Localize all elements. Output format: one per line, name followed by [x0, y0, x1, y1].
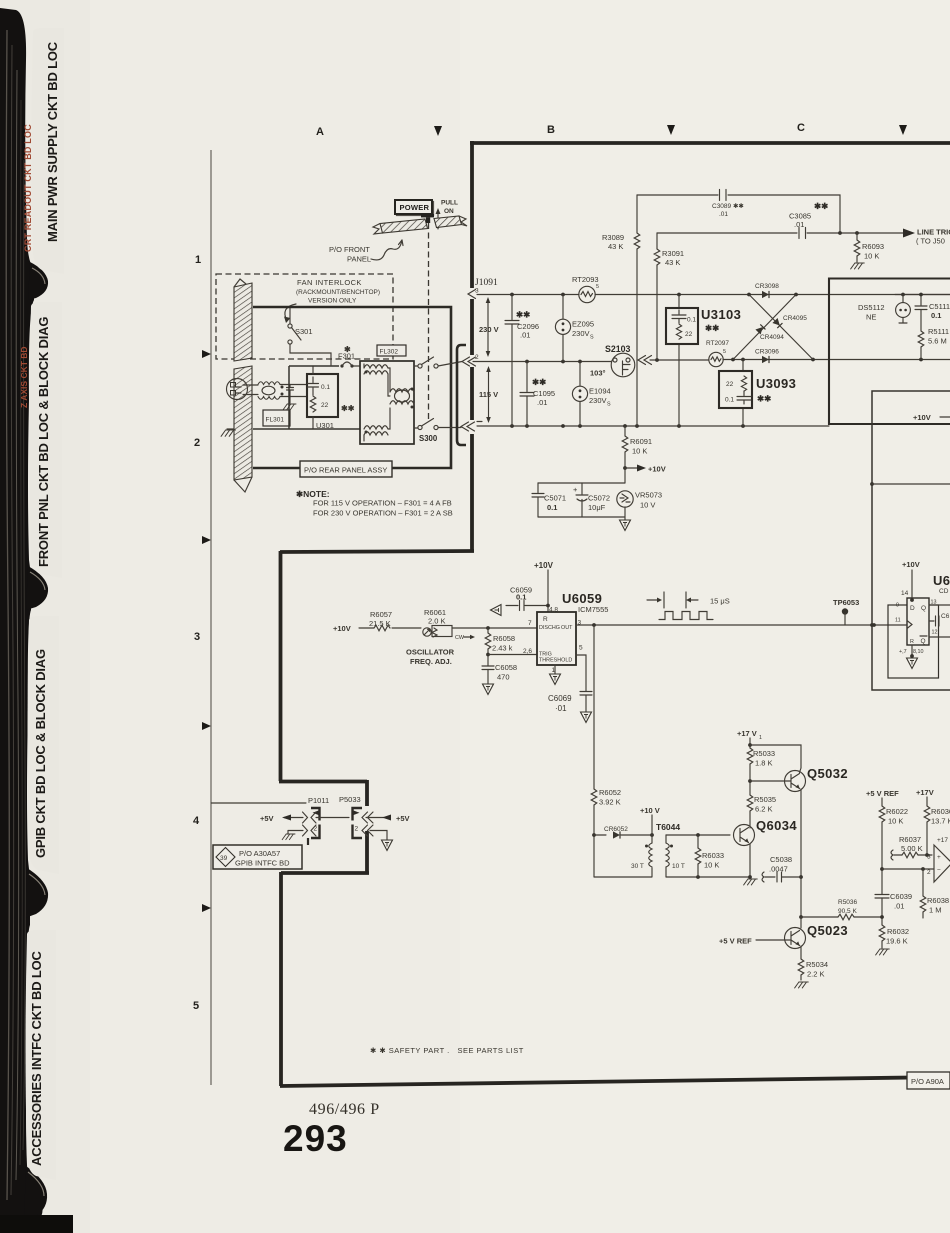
svg-text:+10V: +10V: [648, 465, 666, 474]
svg-text:14: 14: [901, 590, 909, 597]
diode CR3098: [762, 291, 769, 298]
diodes CR4094 / CR4095 cross: [733, 295, 796, 360]
svg-text:2: 2: [475, 354, 479, 361]
svg-text:2.43 k: 2.43 k: [492, 644, 513, 653]
svg-text:1 M: 1 M: [929, 906, 942, 915]
svg-text:R6037: R6037: [899, 835, 921, 844]
svg-text:5: 5: [193, 1000, 199, 1012]
resistor R6038: [882, 868, 934, 870]
svg-text:R5036: R5036: [838, 899, 858, 906]
svg-text:496/496 P: 496/496 P: [309, 1101, 380, 1118]
svg-text:230V: 230V: [589, 396, 607, 405]
svg-text:S2103: S2103: [605, 344, 631, 354]
svg-text:Q6034: Q6034: [756, 818, 797, 833]
P/O A90A label box: [907, 1072, 950, 1089]
resistor R6093: [856, 233, 858, 262]
svg-text:U60: U60: [933, 573, 950, 588]
wire: margin to P1011: [211, 802, 306, 804]
surge arrestor E1094: [579, 362, 581, 427]
svg-text:FREQ. ADJ.: FREQ. ADJ.: [410, 657, 452, 666]
svg-text:·01: ·01: [555, 704, 567, 713]
svg-text:P/O A30A57: P/O A30A57: [239, 849, 280, 858]
svg-text:R5033: R5033: [753, 749, 775, 758]
resistor R3091: [656, 233, 658, 360]
J1091 pin 2: [462, 357, 470, 366]
svg-text:.01: .01: [894, 902, 904, 911]
svg-text:+10 V: +10 V: [640, 806, 660, 815]
capacitor C1095: [520, 362, 534, 427]
svg-text:+17V: +17V: [916, 788, 934, 797]
capacitor C3085: [657, 232, 903, 234]
transistor Q5032: [785, 771, 806, 792]
svg-text:2: 2: [355, 826, 359, 833]
svg-text:R6038: R6038: [927, 896, 949, 905]
svg-text:✱✱: ✱✱: [757, 394, 772, 404]
svg-text:0.1: 0.1: [321, 384, 330, 391]
svg-text:CR3098: CR3098: [755, 283, 779, 290]
thermistor RT2097: [709, 352, 723, 366]
svg-text:3.92 K: 3.92 K: [599, 798, 621, 807]
svg-text:−: −: [937, 867, 941, 874]
svg-text:C1095: C1095: [533, 389, 555, 398]
svg-text:+,7: +,7: [899, 649, 907, 655]
svg-text:3: 3: [194, 631, 200, 643]
svg-text:+5 V REF: +5 V REF: [866, 789, 899, 798]
FL301 label box: [263, 410, 290, 426]
svg-text:90.5 K: 90.5 K: [838, 908, 857, 915]
svg-text:CW: CW: [455, 635, 465, 641]
svg-text:+: +: [573, 485, 578, 494]
transformer FL302: [360, 361, 414, 444]
svg-text:Q5023: Q5023: [807, 923, 848, 938]
svg-text:FL301: FL301: [266, 417, 285, 424]
svg-text:RT2093: RT2093: [572, 275, 599, 284]
connector P1011 / P5033 brackets: [311, 808, 320, 838]
potentiometer R6061: [423, 628, 431, 636]
diode CR3096: [762, 356, 769, 363]
svg-text:+10V: +10V: [902, 560, 920, 569]
wire: S2103 output: [650, 359, 950, 362]
svg-text:12: 12: [932, 630, 938, 636]
svg-text:.01: .01: [537, 398, 547, 407]
connector J1091 bracket: [457, 345, 466, 445]
svg-text:C: C: [797, 122, 805, 134]
svg-text:R3089: R3089: [602, 233, 624, 242]
svg-text:✱ ✱ SAFETY PART . SEE PARTS: ✱ ✱ SAFETY PART . SEE PARTS LIST: [370, 1046, 524, 1055]
svg-text:C6069: C6069: [548, 694, 572, 703]
svg-text:4: 4: [193, 815, 200, 827]
resistor R6091 and +10V node: [624, 426, 626, 483]
diode CR6052: [613, 831, 620, 838]
svg-text:.01: .01: [794, 220, 804, 229]
svg-text:8,10: 8,10: [913, 649, 924, 655]
svg-text:230 V: 230 V: [479, 325, 499, 334]
svg-text:C5071: C5071: [544, 494, 566, 503]
svg-text:22: 22: [685, 331, 693, 338]
svg-text:NE: NE: [866, 313, 876, 322]
resistor R5036: [801, 916, 882, 918]
svg-text:S: S: [607, 402, 611, 408]
op-amp U6040: [934, 845, 950, 882]
svg-text:✱✱: ✱✱: [814, 201, 829, 211]
svg-text:R6033: R6033: [702, 851, 724, 860]
svg-text:✱✱: ✱✱: [341, 404, 355, 413]
capacitor C6069 on pin 5: [576, 655, 592, 712]
svg-text:C6039: C6039: [890, 892, 912, 901]
svg-text:DS5112: DS5112: [858, 303, 885, 312]
svg-text:CD: CD: [939, 588, 949, 595]
svg-text:3: 3: [475, 288, 479, 295]
svg-text:30 T: 30 T: [631, 863, 644, 870]
svg-text:R5035: R5035: [754, 795, 776, 804]
margin line: [210, 150, 212, 1085]
wire: fan interlock return (heavy): [253, 307, 451, 468]
fan interlock dashed outline: [216, 274, 393, 359]
svg-text:DISCHG: DISCHG: [539, 625, 560, 631]
svg-text:U3093: U3093: [756, 376, 796, 391]
filter module U301 (0.1 / 22): [307, 374, 338, 417]
svg-text:11: 11: [895, 618, 901, 624]
svg-text:9: 9: [896, 603, 899, 609]
filter module U3093: [742, 360, 744, 427]
svg-text:293: 293: [283, 1118, 348, 1159]
svg-text:FRONT PNL CKT BD LOC & BLOCK D: FRONT PNL CKT BD LOC & BLOCK DIAG: [36, 317, 51, 567]
waveform 15 microsecond annotation: [647, 599, 657, 601]
resistor R6033: [696, 833, 700, 837]
svg-text:+10V: +10V: [333, 624, 351, 633]
svg-text:ICM7555: ICM7555: [578, 605, 608, 614]
svg-text:S301: S301: [295, 327, 313, 336]
svg-text:E1094: E1094: [589, 387, 611, 396]
svg-text:ACCESSORIES INTFC CKT BD LOC: ACCESSORIES INTFC CKT BD LOC: [29, 951, 44, 1166]
svg-text:✱✱: ✱✱: [532, 377, 547, 387]
svg-text:10 V: 10 V: [640, 501, 655, 510]
svg-text:R5111: R5111: [928, 327, 949, 336]
svg-text:CRT READOUT CKT BD LOC: CRT READOUT CKT BD LOC: [23, 124, 33, 252]
svg-text:15 μS: 15 μS: [710, 597, 730, 606]
box: A90A assembly outline: [872, 391, 950, 690]
capacitor C3089: [637, 195, 840, 233]
black binding mass: [0, 8, 43, 1233]
svg-text:22: 22: [321, 402, 329, 409]
svg-text:A: A: [316, 126, 324, 138]
bottom-left black block: [0, 1215, 73, 1233]
svg-text:✱✱: ✱✱: [705, 323, 720, 333]
transistor Q6034: [734, 825, 755, 846]
chassis ground on rear panel bar: [227, 428, 234, 430]
svg-text:VERSION ONLY: VERSION ONLY: [308, 298, 357, 305]
svg-text:C5072: C5072: [588, 494, 610, 503]
svg-text:C3089 ✱✱: C3089 ✱✱: [712, 202, 744, 210]
mechanical link (dashed) POWER to S300: [428, 223, 430, 420]
svg-text:C5038: C5038: [770, 855, 792, 864]
svg-text:J1091: J1091: [475, 278, 498, 288]
svg-text:10 K: 10 K: [704, 861, 719, 870]
resistor R6058: [486, 626, 490, 630]
svg-text:0.1: 0.1: [687, 317, 696, 324]
wire: AC input loop: [253, 366, 360, 429]
line filter FL301 windings: [258, 382, 280, 385]
svg-text:22: 22: [726, 381, 734, 388]
svg-text:PANEL: PANEL: [347, 255, 371, 264]
svg-text:FOR 115 V OPERATION – F301 = 4: FOR 115 V OPERATION – F301 = 4 A FB: [313, 499, 452, 508]
svg-text:.01: .01: [719, 211, 728, 218]
svg-text:2,6: 2,6: [523, 648, 532, 655]
svg-text:Q5032: Q5032: [807, 766, 848, 781]
svg-text:5.6 M: 5.6 M: [928, 337, 947, 346]
svg-text:GPIB CKT BD LOC & BLOCK DIAG: GPIB CKT BD LOC & BLOCK DIAG: [33, 649, 48, 858]
svg-text:MAIN PWR SUPPLY CKT BD LOC: MAIN PWR SUPPLY CKT BD LOC: [45, 41, 60, 242]
svg-text:C6: C6: [941, 613, 950, 620]
filter module U3103: [678, 295, 680, 427]
J1091 pin 3: [468, 290, 476, 299]
svg-text:+17: +17: [937, 837, 948, 844]
ground (U6059 pin 1): [554, 665, 556, 674]
neon lamp DS5112 box: [829, 279, 950, 425]
transistor Q5023: [785, 928, 806, 949]
svg-text:7: 7: [528, 620, 532, 627]
thermal switch S2103: [611, 353, 635, 377]
svg-text:5: 5: [723, 349, 726, 355]
svg-text:1: 1: [759, 735, 762, 741]
wire: neutral rail (pin 1): [477, 425, 829, 427]
svg-text:10 K: 10 K: [864, 252, 879, 261]
resistor R5035: [747, 795, 753, 811]
svg-text:0.1: 0.1: [725, 397, 734, 404]
svg-text:+5V: +5V: [260, 814, 274, 823]
svg-text:POWER: POWER: [400, 203, 430, 212]
svg-text:R5034: R5034: [806, 960, 828, 969]
svg-text:D: D: [910, 605, 915, 612]
svg-text:B: B: [547, 124, 555, 136]
svg-text:R6058: R6058: [493, 634, 515, 643]
LINE TRIGGER output arrow: [903, 229, 915, 238]
tab papers: [32, 28, 65, 274]
switch S301: [288, 324, 292, 328]
surge arrestor EZ095: [562, 295, 564, 362]
svg-text:U3103: U3103: [701, 307, 741, 322]
wire plug to FL301: [243, 385, 258, 395]
svg-text:FOR 230 V OPERATION – F301 = 2: FOR 230 V OPERATION – F301 = 2 A SB: [313, 509, 453, 518]
svg-text:5: 5: [596, 284, 599, 290]
svg-text:P/O A90A: P/O A90A: [911, 1077, 944, 1086]
svg-text:470: 470: [497, 673, 510, 682]
box: U6063 inner outline: [888, 605, 939, 678]
svg-text:LINE TRIG: LINE TRIG: [917, 228, 950, 237]
svg-text:P5033: P5033: [339, 795, 361, 804]
svg-text:S: S: [590, 335, 594, 341]
svg-text:R: R: [910, 639, 914, 645]
svg-text:S300: S300: [419, 434, 438, 443]
svg-text:13.7 K: 13.7 K: [931, 817, 950, 826]
flip-flop U6063: [907, 598, 929, 645]
svg-text:+5V: +5V: [396, 814, 410, 823]
wire: U6059 output: [576, 624, 906, 626]
wire: ground row (pin 2): [288, 831, 303, 835]
svg-text:PULL: PULL: [441, 200, 458, 207]
svg-text:EZ095: EZ095: [572, 320, 594, 329]
svg-text:R6052: R6052: [599, 788, 621, 797]
svg-text:VR5073: VR5073: [635, 491, 662, 500]
wire: line (pin 2) to S2103: [473, 361, 611, 363]
svg-text:U6059: U6059: [562, 591, 602, 606]
svg-text:(RACKMOUNT/BENCHTOP): (RACKMOUNT/BENCHTOP): [296, 289, 380, 296]
svg-text:R: R: [543, 616, 548, 623]
svg-text:21.5 K: 21.5 K: [369, 619, 391, 628]
svg-text:+10V: +10V: [913, 413, 931, 422]
svg-text:1.8 K: 1.8 K: [755, 759, 773, 768]
front panel (hatched bars): [380, 219, 428, 233]
svg-text:( TO J50: ( TO J50: [916, 237, 945, 246]
resistor R6032: [879, 925, 885, 941]
svg-text:0.1: 0.1: [547, 503, 557, 512]
svg-text:103°: 103°: [590, 369, 606, 378]
capacitors (FL301 X-caps): [287, 385, 294, 397]
svg-text:R6093: R6093: [862, 242, 884, 251]
svg-text:+: +: [937, 854, 941, 861]
svg-text:10 K: 10 K: [632, 447, 647, 456]
wire: 230V line (pin 3): [477, 294, 950, 296]
svg-text:43 K: 43 K: [665, 258, 680, 267]
thermistor RT2093: [579, 286, 595, 302]
svg-text:230V: 230V: [572, 329, 590, 338]
svg-text:19.6 K: 19.6 K: [886, 937, 908, 946]
svg-text:39: 39: [220, 855, 228, 862]
svg-text:FL302: FL302: [380, 349, 399, 356]
svg-text:P1011: P1011: [308, 796, 329, 805]
svg-text:.01: .01: [520, 331, 530, 340]
230V / 115V range arrows: [487, 301, 489, 353]
svg-text:2: 2: [194, 437, 200, 449]
svg-text:CR4095: CR4095: [783, 315, 807, 322]
svg-text:Q: Q: [921, 605, 926, 612]
svg-text:4,8: 4,8: [549, 607, 558, 614]
svg-text:+10V: +10V: [534, 561, 554, 570]
svg-text:6.2 K: 6.2 K: [755, 805, 773, 814]
connector chevrons after S2103: [638, 356, 646, 365]
svg-text:R6057: R6057: [370, 610, 392, 619]
svg-text:OUT: OUT: [561, 625, 573, 631]
svg-text:3: 3: [927, 854, 931, 861]
svg-text:P/O REAR PANEL ASSY: P/O REAR PANEL ASSY: [304, 466, 387, 475]
svg-text:✱: ✱: [344, 345, 351, 354]
svg-text:R3091: R3091: [662, 249, 684, 258]
svg-text:OSCILLATOR: OSCILLATOR: [406, 648, 455, 657]
svg-text:ON: ON: [444, 208, 454, 215]
svg-text:C5111: C5111: [929, 302, 950, 311]
svg-text:CR6052: CR6052: [604, 826, 628, 833]
svg-text:GPIB INTFC BD: GPIB INTFC BD: [235, 859, 290, 868]
svg-text:FAN INTERLOCK: FAN INTERLOCK: [297, 278, 362, 287]
gray page-edge streaks: [6, 30, 9, 1200]
resistor R3089: [636, 195, 638, 426]
svg-text:R6022: R6022: [886, 807, 908, 816]
svg-text:+5 V REF: +5 V REF: [719, 937, 752, 946]
capacitor C6059: [491, 605, 502, 616]
resistor R6052: [591, 789, 597, 805]
svg-text:CR4094: CR4094: [760, 334, 784, 341]
J1091 pin 1: [461, 422, 469, 431]
svg-text:2.0 K: 2.0 K: [428, 617, 446, 626]
capacitor C2096: [505, 295, 519, 427]
svg-text:T6044: T6044: [656, 822, 680, 832]
svg-text:0.1: 0.1: [516, 593, 526, 602]
svg-text:R6036: R6036: [931, 807, 950, 816]
svg-text:✱✱: ✱✱: [516, 310, 531, 320]
POWER switch label box: [397, 202, 434, 216]
svg-text:✱NOTE:: ✱NOTE:: [296, 489, 330, 499]
AC line plug: [227, 379, 248, 400]
POWER pushbutton shaft: [421, 214, 434, 217]
svg-text:+17 V: +17 V: [737, 729, 757, 738]
svg-text:THRESHOLD: THRESHOLD: [539, 658, 572, 664]
svg-text:C6058: C6058: [495, 663, 517, 672]
svg-text:2: 2: [927, 869, 931, 876]
svg-text:10μF: 10μF: [588, 503, 606, 512]
GPIB INTFC BD label box: [213, 845, 302, 869]
capacitor C5071 / capacitor C5072 / zener VR5073: [538, 482, 625, 484]
svg-text:RT2097: RT2097: [706, 340, 729, 347]
capacitor C6039: [875, 895, 889, 899]
svg-text:10 K: 10 K: [888, 817, 903, 826]
svg-text:.0047: .0047: [769, 865, 788, 874]
svg-text:43 K: 43 K: [608, 242, 623, 251]
switch S300 upper contact: [418, 364, 422, 368]
svg-text:115 V: 115 V: [479, 390, 498, 399]
wire: output to R6052: [593, 625, 595, 877]
svg-text:5: 5: [579, 645, 583, 652]
svg-text:10 T: 10 T: [672, 863, 685, 870]
svg-text:Z AXIS CKT BD: Z AXIS CKT BD: [19, 346, 29, 408]
fuse F301: [340, 364, 343, 367]
svg-text:1: 1: [195, 254, 201, 266]
svg-text:CR3096: CR3096: [755, 349, 779, 356]
svg-text:Q: Q: [921, 638, 926, 645]
svg-text:R6032: R6032: [887, 927, 909, 936]
svg-text:TP6053: TP6053: [833, 598, 859, 607]
svg-text:2.2 K: 2.2 K: [807, 970, 825, 979]
between-tab black curls: [28, 262, 48, 300]
switch S300 lower contact: [418, 425, 422, 429]
P/O REAR PANEL ASSY box: [300, 461, 392, 477]
svg-text:R6091: R6091: [630, 437, 652, 446]
svg-text:0.1: 0.1: [931, 311, 941, 320]
svg-text:P/O FRONT: P/O FRONT: [329, 245, 370, 254]
timer U6059 ICM7555: [537, 612, 576, 665]
